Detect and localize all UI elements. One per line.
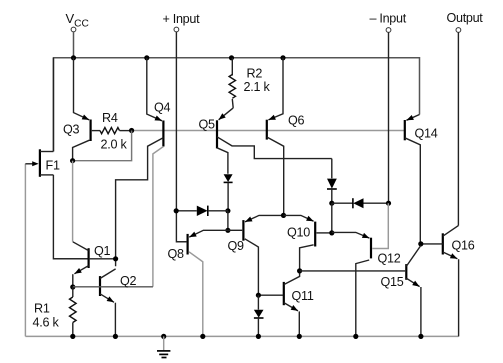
Q3 label	[63, 123, 80, 137]
node VCC-R2	[229, 55, 234, 60]
diode D4	[332, 198, 389, 208]
wire F1 source	[53, 175, 88, 259]
transistor Q1	[53, 242, 115, 287]
-Input terminal	[386, 28, 391, 33]
wire bias jog	[73, 131, 132, 161]
node +input-D5	[174, 208, 179, 213]
node gnd-Q15e	[418, 334, 423, 339]
node gnd-Q8c	[200, 334, 205, 339]
VCC label	[66, 11, 89, 29]
node Q10b-Q12e	[329, 230, 334, 235]
Q14 label	[415, 127, 438, 141]
node VCC-Q4	[144, 55, 149, 60]
-Input label	[370, 12, 407, 26]
wire Q3c-Q1c	[72, 161, 74, 242]
wire F1 drain	[52, 58, 54, 152]
VCC terminal	[71, 27, 76, 58]
svg-text:R1: R1	[34, 302, 50, 316]
wire mirror	[227, 211, 229, 231]
svg-text:Q5: Q5	[199, 118, 216, 132]
wire +input	[176, 32, 187, 242]
Q5 label	[199, 118, 216, 132]
node gnd-Q11e	[297, 334, 302, 339]
Output label	[447, 11, 484, 25]
Q10 label	[287, 226, 310, 240]
svg-text:Q10: Q10	[287, 226, 310, 240]
node Q8e-Q9b	[225, 228, 230, 233]
Q4 label	[154, 101, 171, 115]
transistor Q12	[332, 203, 389, 336]
svg-text:Q2: Q2	[120, 274, 137, 288]
+Input label	[163, 12, 201, 26]
+Input terminal	[174, 27, 179, 32]
wire ground rail	[25, 335, 458, 337]
node Q14c-Q16b	[418, 241, 423, 246]
svg-text:Q4: Q4	[154, 101, 171, 115]
svg-text:+ Input: + Input	[163, 12, 201, 26]
transistor Q16	[421, 226, 459, 337]
node gnd-Q2e	[113, 334, 118, 339]
transistor Q6	[267, 58, 284, 216]
Q6 label	[288, 114, 305, 128]
node gnd-Q12c	[353, 334, 358, 339]
node emitter rail	[281, 213, 286, 218]
resistor R4	[100, 128, 132, 134]
svg-text:Q16: Q16	[452, 239, 475, 253]
transistor Q10	[284, 215, 332, 271]
svg-text:2.1 k: 2.1 k	[244, 80, 271, 94]
svg-text:Q9: Q9	[228, 239, 245, 253]
diode D2	[327, 159, 337, 204]
Q1 label	[94, 244, 111, 258]
transistor Q14	[405, 115, 421, 244]
Q12 label	[378, 252, 401, 266]
wire D2-Q10b	[331, 203, 333, 233]
svg-text:F1: F1	[46, 159, 60, 173]
wire Q11c-Q15b	[300, 270, 406, 272]
wire output	[457, 33, 459, 226]
diode D3	[254, 295, 264, 336]
transistor Q5	[217, 108, 332, 174]
ground	[157, 336, 170, 357]
Q8 label	[168, 247, 185, 261]
diode D1	[224, 174, 233, 211]
node VCC-Q6	[280, 55, 285, 60]
svg-text:Q8: Q8	[168, 247, 185, 261]
node mirror top	[225, 208, 230, 213]
node gnd-sym	[161, 334, 166, 339]
svg-text:Q15: Q15	[381, 275, 404, 289]
svg-text:Q11: Q11	[292, 289, 314, 303]
transistor Q9	[228, 215, 284, 295]
R2 value label	[244, 80, 271, 94]
R4 value label	[101, 137, 128, 151]
Output terminal	[456, 28, 461, 33]
Q15 label	[381, 275, 404, 289]
node Q10c-Q11c	[297, 268, 302, 273]
transistor Q2	[73, 269, 153, 337]
node Q1e-Q2b	[70, 284, 75, 289]
transistor F1	[25, 149, 53, 177]
node Q1b-Q2c	[113, 256, 118, 261]
svg-text:Q12: Q12	[378, 252, 401, 266]
node gnd-D3	[256, 334, 261, 339]
svg-text:Q1: Q1	[94, 244, 111, 258]
transistor Q8	[176, 230, 228, 336]
F1 label	[46, 159, 60, 173]
wire left rail	[24, 164, 26, 337]
Q11 label	[292, 289, 314, 303]
node R4-bias	[129, 128, 134, 133]
node gnd-R1	[70, 334, 75, 339]
wire bias line	[132, 130, 405, 132]
resistor R1	[70, 287, 77, 336]
svg-text:4.6 k: 4.6 k	[33, 316, 60, 330]
diode D5	[176, 206, 228, 216]
wire VCC rail	[54, 58, 420, 152]
svg-text:– Input: – Input	[370, 12, 407, 26]
svg-text:R4: R4	[102, 111, 118, 125]
transistor Q15	[406, 246, 421, 337]
R2 label	[247, 66, 263, 80]
transistor Q4	[116, 58, 164, 287]
Q9 label	[228, 239, 245, 253]
svg-text:R2: R2	[247, 66, 263, 80]
svg-text:Q14: Q14	[415, 127, 438, 141]
svg-text:Q6: Q6	[288, 114, 305, 128]
Q2 label	[120, 274, 137, 288]
R1 value label	[33, 316, 60, 330]
transistor Q11	[258, 271, 299, 337]
R1 label	[34, 302, 50, 316]
svg-text:Output: Output	[447, 11, 484, 25]
Q16 label	[452, 239, 475, 253]
transistor Q3	[73, 58, 100, 161]
node Q9c-Q11b	[256, 293, 261, 298]
svg-text:2.0 k: 2.0 k	[101, 137, 128, 151]
node VCC-Q3	[71, 55, 76, 60]
svg-text:Q3: Q3	[63, 123, 80, 137]
node D2-D4	[329, 201, 334, 206]
resistor R2	[229, 58, 235, 108]
node -input-D4	[386, 201, 391, 206]
R4 label	[102, 111, 118, 125]
wire -input	[388, 33, 390, 204]
node Q3 collector	[70, 158, 75, 163]
